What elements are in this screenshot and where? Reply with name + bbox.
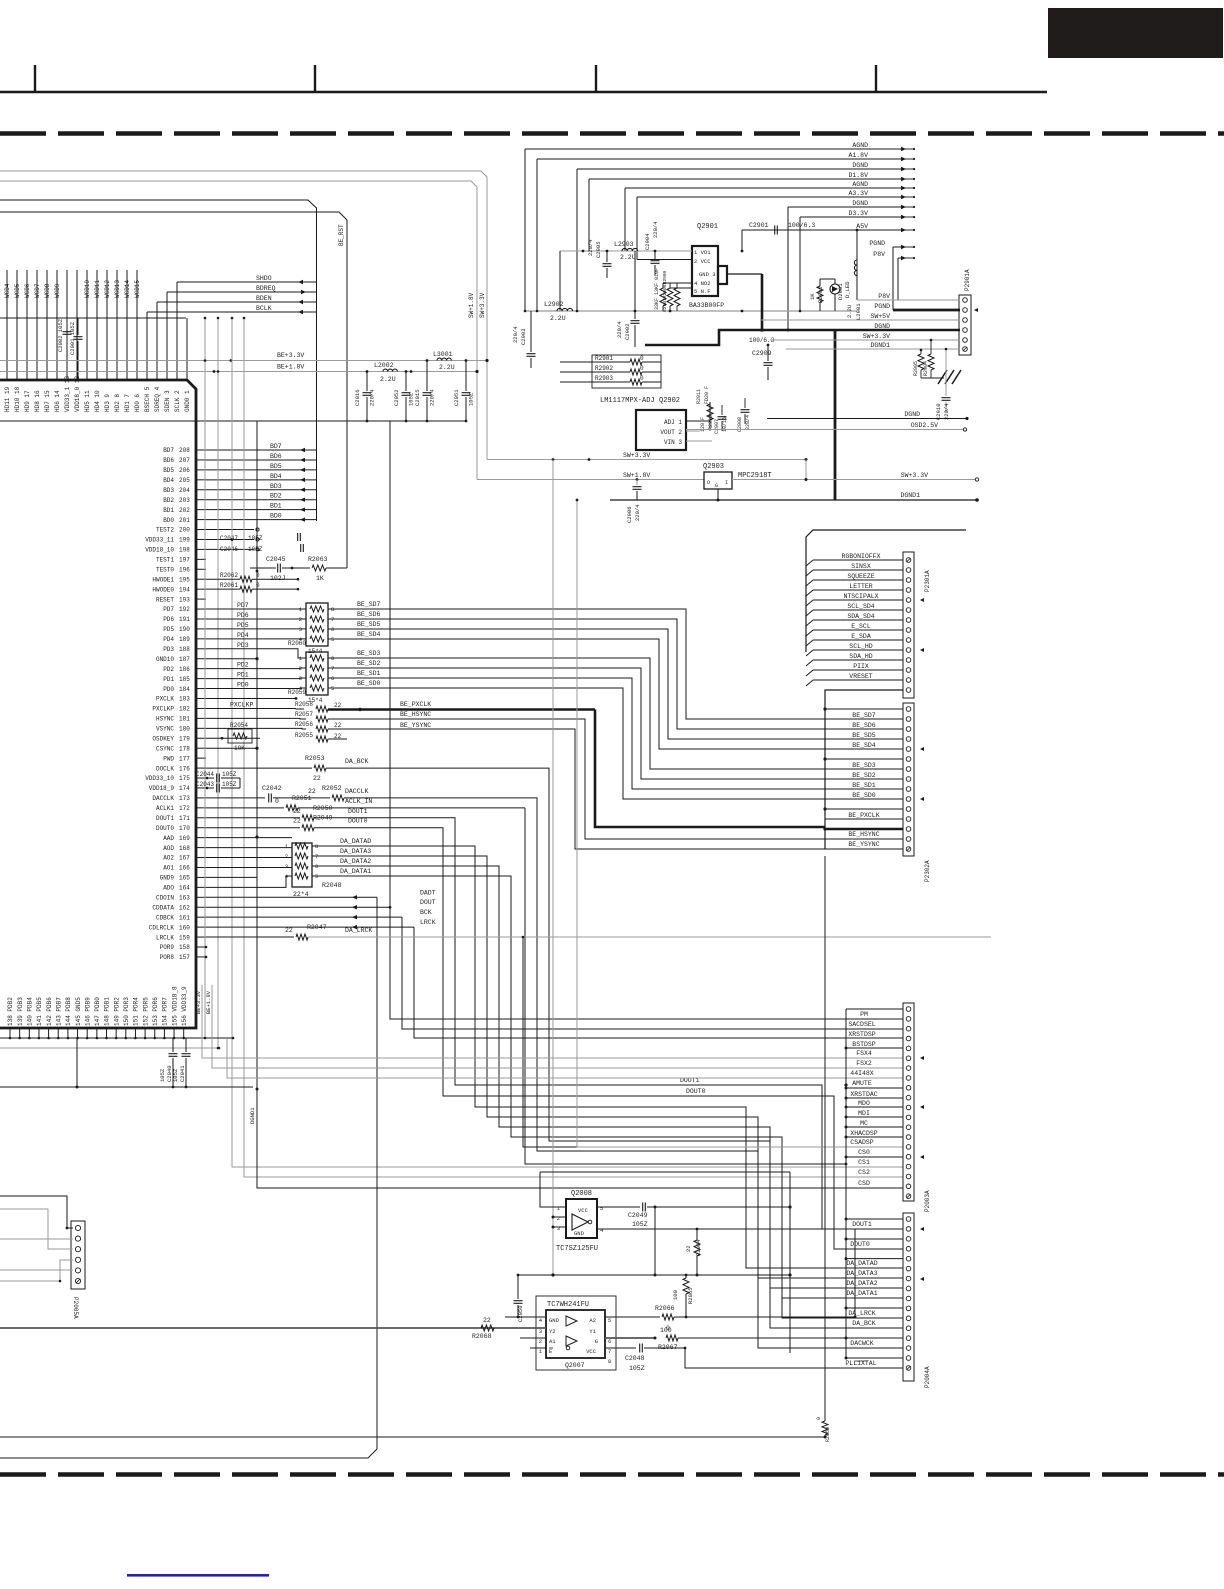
svg-text:C2042: C2042 — [262, 785, 282, 792]
svg-text:R2063: R2063 — [308, 556, 328, 563]
svg-text:BE_SD5: BE_SD5 — [357, 621, 381, 628]
svg-text:C2015: C2015 — [414, 389, 421, 406]
svg-text:GND10: GND10 — [156, 656, 174, 663]
svg-text:CDOIN: CDOIN — [156, 895, 174, 902]
svg-text:R2905: R2905 — [913, 361, 919, 376]
svg-text:0: 0 — [640, 365, 644, 372]
svg-text:C2904: C2904 — [644, 233, 651, 250]
svg-text:XHACDSP: XHACDSP — [850, 1130, 877, 1137]
svg-text:200: 200 — [179, 527, 190, 534]
svg-text:AO1: AO1 — [163, 865, 174, 872]
svg-text:170: 170 — [179, 825, 190, 832]
svg-text:DA_LRCK: DA_LRCK — [848, 1310, 875, 1317]
svg-text:BE_SD7: BE_SD7 — [852, 712, 876, 719]
svg-text:PGND: PGND — [869, 240, 885, 247]
svg-text:105Z: 105Z — [632, 1221, 648, 1228]
svg-text:TC7SZ125FU: TC7SZ125FU — [556, 1245, 598, 1253]
svg-text:144 PDB8: 144 PDB8 — [65, 997, 72, 1026]
svg-text:C2050: C2050 — [517, 1305, 524, 1322]
svg-text:BD4: BD4 — [270, 473, 282, 480]
svg-text:BDREQ: BDREQ — [256, 285, 276, 292]
svg-text:P8V: P8V — [873, 251, 885, 258]
svg-text:HWODE0: HWODE0 — [152, 586, 174, 593]
svg-text:7: 7 — [608, 1348, 611, 1355]
svg-text:192: 192 — [179, 606, 190, 613]
svg-text:C2046: C2046 — [220, 546, 238, 553]
svg-text:G: G — [595, 1338, 598, 1345]
svg-text:SACDSEL: SACDSEL — [848, 1021, 875, 1028]
svg-text:PD5: PD5 — [237, 622, 249, 629]
svg-text:3: 3 — [539, 1328, 542, 1335]
svg-text:FSX4: FSX4 — [856, 1050, 872, 1057]
svg-text:2.2U: 2.2U — [846, 305, 853, 318]
svg-text:BE_RST: BE_RST — [338, 224, 345, 246]
svg-text:BE_SD7: BE_SD7 — [357, 601, 381, 608]
svg-text:BE_SD1: BE_SD1 — [852, 782, 876, 789]
svg-text:DACWCK: DACWCK — [850, 1340, 874, 1347]
svg-text:DA_DATA3: DA_DATA3 — [846, 1270, 877, 1277]
svg-text:22: 22 — [685, 1245, 692, 1252]
svg-text:PD3: PD3 — [163, 646, 174, 653]
svg-text:ADJ 1: ADJ 1 — [664, 419, 682, 426]
svg-text:DA_DATA2: DA_DATA2 — [846, 1280, 877, 1287]
svg-text:171: 171 — [179, 815, 190, 822]
svg-text:199: 199 — [179, 537, 190, 544]
svg-text:SW+3.3V: SW+3.3V — [479, 292, 486, 318]
svg-text:158: 158 — [179, 944, 190, 951]
svg-text:0: 0 — [640, 355, 644, 362]
svg-text:PXCLK: PXCLK — [156, 696, 174, 703]
svg-text:SINSX: SINSX — [851, 563, 871, 570]
svg-text:GND0 1: GND0 1 — [184, 390, 191, 412]
svg-text:2: 2 — [299, 616, 302, 623]
svg-text:169: 169 — [179, 835, 190, 842]
svg-text:1 VO1: 1 VO1 — [694, 249, 711, 256]
svg-text:168: 168 — [179, 845, 190, 852]
svg-text:C2043: C2043 — [196, 781, 214, 788]
svg-text:105Z: 105Z — [629, 1365, 645, 1372]
svg-text:ADO: ADO — [163, 885, 174, 892]
svg-text:BDEN: BDEN — [256, 295, 272, 302]
svg-text:CDBCK: CDBCK — [156, 914, 174, 921]
svg-text:C2048: C2048 — [625, 1355, 645, 1362]
svg-text:220/4: 220/4 — [587, 239, 594, 256]
svg-text:P2301A: P2301A — [924, 570, 931, 592]
svg-text:GND9: GND9 — [160, 875, 175, 882]
svg-text:220/4: 220/4 — [512, 326, 519, 343]
svg-text:166: 166 — [179, 865, 190, 872]
svg-text:L2002: L2002 — [374, 362, 394, 369]
svg-text:DA_BCK: DA_BCK — [852, 1320, 876, 1327]
svg-text:100: 100 — [672, 1290, 679, 1300]
svg-text:VDD18_0 12: VDD18_0 12 — [74, 376, 81, 412]
svg-text:WCD9: WCD9 — [54, 283, 61, 298]
svg-text:183: 183 — [179, 696, 190, 703]
svg-text:HD8 16: HD8 16 — [34, 390, 41, 412]
svg-text:L2901: L2901 — [855, 303, 862, 320]
svg-text:AGND: AGND — [852, 142, 868, 149]
svg-text:R2058: R2058 — [295, 701, 313, 708]
svg-text:CSYNC: CSYNC — [156, 745, 174, 752]
svg-text:DA_DATA1: DA_DATA1 — [340, 868, 371, 875]
svg-text:C2045: C2045 — [266, 556, 286, 563]
svg-text:A1: A1 — [549, 1338, 556, 1345]
svg-text:PD2: PD2 — [237, 662, 249, 669]
svg-text:C2905: C2905 — [595, 241, 602, 258]
svg-text:0: 0 — [256, 572, 260, 579]
svg-text:PD4: PD4 — [237, 632, 249, 639]
svg-text:GND: GND — [574, 1230, 585, 1237]
svg-text:R2059: R2059 — [288, 689, 306, 696]
svg-text:BE+1.8V: BE+1.8V — [205, 990, 212, 1014]
svg-text:173: 173 — [179, 795, 190, 802]
svg-text:PD6: PD6 — [163, 616, 174, 623]
svg-text:HD1 7: HD1 7 — [124, 394, 131, 412]
svg-text:BE_PXCLK: BE_PXCLK — [848, 812, 879, 819]
svg-text:160: 160 — [179, 924, 190, 931]
svg-text:DGND1: DGND1 — [249, 1107, 256, 1124]
svg-text:WCD6: WCD6 — [24, 283, 31, 298]
svg-text:AMUTE: AMUTE — [852, 1080, 872, 1087]
svg-text:205: 205 — [179, 477, 190, 484]
svg-text:BE_SD0: BE_SD0 — [852, 792, 876, 799]
svg-text:151 PDR4: 151 PDR4 — [133, 997, 140, 1026]
svg-text:BD6: BD6 — [163, 457, 174, 464]
svg-text:DA_DATA2: DA_DATA2 — [340, 858, 371, 865]
svg-text:DOUT0: DOUT0 — [686, 1088, 706, 1095]
svg-text:BSTDSP: BSTDSP — [852, 1041, 876, 1048]
svg-text:DA_DATA3: DA_DATA3 — [340, 848, 371, 855]
svg-text:204: 204 — [179, 487, 190, 494]
svg-text:154 PDR7: 154 PDR7 — [162, 997, 169, 1026]
svg-text:P2003A: P2003A — [924, 1190, 931, 1212]
svg-text:PD1: PD1 — [163, 676, 174, 683]
svg-text:L2902: L2902 — [544, 301, 564, 308]
svg-text:DACCLK: DACCLK — [345, 788, 369, 795]
svg-text:VOUT 2: VOUT 2 — [660, 429, 682, 436]
svg-text:138 PDB2: 138 PDB2 — [7, 997, 14, 1026]
svg-text:MC: MC — [860, 1120, 868, 1127]
svg-text:WCD15: WCD15 — [134, 280, 141, 298]
svg-text:DOUT1: DOUT1 — [852, 1221, 872, 1228]
svg-text:44I48X: 44I48X — [850, 1070, 874, 1077]
svg-text:197: 197 — [179, 557, 190, 564]
svg-text:HD7 15: HD7 15 — [44, 390, 51, 412]
svg-text:HD9 17: HD9 17 — [24, 390, 31, 412]
svg-text:BD3: BD3 — [163, 487, 174, 494]
svg-text:R2902: R2902 — [595, 365, 613, 372]
svg-text:VDD33_10: VDD33_10 — [145, 775, 174, 782]
svg-text:190: 190 — [179, 626, 190, 633]
svg-text:TEST0: TEST0 — [156, 566, 174, 573]
svg-text:2.2U: 2.2U — [380, 376, 396, 383]
svg-text:R2065: R2065 — [687, 1287, 694, 1304]
svg-text:BD0: BD0 — [270, 513, 282, 520]
svg-text:0: 0 — [275, 798, 279, 805]
svg-text:PM: PM — [860, 1011, 868, 1018]
svg-text:BE_SD3: BE_SD3 — [852, 762, 876, 769]
svg-text:105Z: 105Z — [248, 546, 263, 553]
svg-text:HD4 10: HD4 10 — [94, 390, 101, 412]
svg-text:P2302A: P2302A — [924, 860, 931, 882]
svg-text:CS1: CS1 — [858, 1159, 870, 1166]
svg-text:Q2007: Q2007 — [565, 1362, 585, 1369]
svg-text:DOUT0: DOUT0 — [156, 825, 174, 832]
svg-text:A3.3V: A3.3V — [848, 190, 868, 197]
svg-text:2.2U: 2.2U — [620, 254, 636, 261]
svg-text:22: 22 — [334, 702, 342, 709]
svg-text:PD6: PD6 — [237, 612, 249, 619]
svg-text:SW+3.3V: SW+3.3V — [901, 472, 928, 479]
svg-text:146 PDB9: 146 PDB9 — [84, 997, 91, 1026]
svg-text:202: 202 — [179, 507, 190, 514]
svg-text:ACLK_IN: ACLK_IN — [345, 798, 372, 805]
svg-text:CS0: CS0 — [858, 1149, 870, 1156]
svg-text:D1.8V: D1.8V — [848, 172, 868, 179]
svg-text:189: 189 — [179, 636, 190, 643]
svg-text:DA_DATA1: DA_DATA1 — [846, 1290, 877, 1297]
svg-text:153 PDR6: 153 PDR6 — [152, 997, 159, 1026]
svg-text:LM1117MPX-ADJ: LM1117MPX-ADJ — [600, 397, 655, 405]
svg-text:WCD5: WCD5 — [14, 283, 21, 298]
svg-text:AAD: AAD — [163, 835, 174, 842]
svg-text:172: 172 — [179, 805, 190, 812]
svg-text:C2002 105Z: C2002 105Z — [57, 318, 64, 352]
svg-text:PIIX: PIIX — [853, 663, 869, 670]
svg-text:195: 195 — [179, 576, 190, 583]
svg-text:196: 196 — [179, 566, 190, 573]
svg-text:A1.8V: A1.8V — [848, 152, 868, 159]
svg-text:148 PDB1: 148 PDB1 — [104, 997, 111, 1026]
svg-text:O: O — [707, 480, 710, 486]
svg-text:C2902: C2902 — [624, 323, 631, 340]
svg-text:PD0: PD0 — [163, 686, 174, 693]
svg-text:TC7WH241FU: TC7WH241FU — [547, 1301, 589, 1309]
svg-text:BE_SD2: BE_SD2 — [357, 660, 381, 667]
svg-text:PXCLKP: PXCLKP — [152, 706, 174, 713]
svg-text:BA33B00FP: BA33B00FP — [689, 302, 724, 309]
svg-text:D_LED: D_LED — [844, 281, 851, 298]
svg-text:OSDKEY: OSDKEY — [152, 735, 174, 742]
svg-text:SCLK 2: SCLK 2 — [174, 390, 181, 412]
svg-text:VSYNC: VSYNC — [156, 726, 174, 733]
svg-text:AGND: AGND — [852, 181, 868, 188]
svg-text:Q2008: Q2008 — [571, 1190, 592, 1198]
svg-text:XRSTDAC: XRSTDAC — [850, 1091, 877, 1098]
svg-text:Y1: Y1 — [589, 1328, 596, 1335]
svg-text:CS2: CS2 — [858, 1169, 870, 1176]
svg-text:R2060: R2060 — [288, 640, 306, 647]
svg-text:105Z: 105Z — [222, 781, 237, 788]
svg-text:AO2: AO2 — [163, 855, 174, 862]
svg-text:BE_SD3: BE_SD3 — [357, 650, 381, 657]
svg-text:CSD: CSD — [858, 1180, 870, 1187]
svg-text:WCD11: WCD11 — [94, 280, 101, 298]
svg-text:A2: A2 — [589, 1317, 596, 1324]
svg-text:DGND1: DGND1 — [900, 492, 920, 499]
svg-text:WCD4: WCD4 — [4, 283, 11, 298]
svg-text:SDA_HD: SDA_HD — [849, 653, 873, 660]
svg-text:A5V: A5V — [856, 223, 868, 230]
svg-text:TEST1: TEST1 — [156, 557, 174, 564]
svg-text:DOCLK: DOCLK — [156, 765, 174, 772]
svg-text:LRCLK: LRCLK — [156, 934, 174, 941]
svg-text:R2903: R2903 — [595, 375, 613, 382]
svg-text:PD0: PD0 — [237, 682, 249, 689]
svg-text:DA_BCK: DA_BCK — [345, 758, 369, 765]
svg-text:BD6: BD6 — [270, 453, 282, 460]
svg-text:198: 198 — [179, 547, 190, 554]
svg-text:C2041: C2041 — [179, 1065, 186, 1082]
svg-text:3: 3 — [557, 1225, 560, 1232]
svg-text:C2052: C2052 — [393, 389, 400, 406]
svg-text:GND: GND — [549, 1317, 560, 1324]
svg-text:DOUT0: DOUT0 — [850, 1241, 870, 1248]
svg-text:VDD33_1 13: VDD33_1 13 — [64, 376, 71, 412]
svg-text:105Z: 105Z — [248, 535, 263, 542]
svg-text:203: 203 — [179, 497, 190, 504]
svg-text:102J: 102J — [270, 575, 286, 582]
svg-text:1K: 1K — [809, 293, 816, 300]
svg-text:BD2: BD2 — [270, 493, 282, 500]
svg-text:PD4: PD4 — [163, 636, 174, 643]
svg-text:R2066: R2066 — [655, 1305, 675, 1312]
svg-text:SDEN 3: SDEN 3 — [164, 390, 171, 412]
svg-text:220/4: 220/4 — [634, 504, 641, 521]
svg-text:HD3 9: HD3 9 — [104, 394, 111, 412]
svg-text:150 PDR3: 150 PDR3 — [123, 997, 130, 1026]
svg-text:182: 182 — [179, 706, 190, 713]
svg-text:DACCLK: DACCLK — [152, 795, 174, 802]
svg-text:Q2901: Q2901 — [697, 223, 718, 231]
svg-text:WCD12: WCD12 — [104, 280, 111, 298]
svg-text:1K: 1K — [316, 575, 324, 582]
svg-text:CDLRCLK: CDLRCLK — [149, 924, 175, 931]
svg-text:R2052: R2052 — [322, 785, 342, 792]
svg-text:BE_SD5: BE_SD5 — [852, 732, 876, 739]
svg-text:VDD18_9: VDD18_9 — [149, 785, 175, 792]
svg-text:AOD: AOD — [163, 845, 174, 852]
svg-text:BD7: BD7 — [270, 443, 282, 450]
svg-text:BE_PXCLK: BE_PXCLK — [400, 701, 431, 708]
svg-text:PD7: PD7 — [163, 606, 174, 613]
svg-text:SW+1.8V: SW+1.8V — [623, 472, 650, 479]
svg-text:C2047: C2047 — [220, 535, 238, 542]
svg-text:163: 163 — [179, 895, 190, 902]
svg-text:3: 3 — [285, 863, 288, 870]
svg-text:MDO: MDO — [858, 1100, 870, 1107]
svg-text:141 PDB5: 141 PDB5 — [36, 997, 43, 1026]
svg-text:Q2902: Q2902 — [659, 397, 680, 405]
svg-text:DA_LRCK: DA_LRCK — [345, 927, 372, 934]
svg-text:BD3: BD3 — [270, 483, 282, 490]
svg-text:P2004A: P2004A — [924, 1366, 931, 1388]
svg-text:178: 178 — [179, 745, 190, 752]
svg-text:191: 191 — [179, 616, 190, 623]
svg-text:180: 180 — [179, 726, 190, 733]
svg-text:165: 165 — [179, 875, 190, 882]
svg-text:100: 100 — [660, 1327, 672, 1334]
svg-text:174: 174 — [179, 785, 190, 792]
svg-text:BE_SD6: BE_SD6 — [852, 722, 876, 729]
svg-text:HSYNC: HSYNC — [156, 716, 174, 723]
svg-text:PD1: PD1 — [237, 672, 249, 679]
svg-text:PD2: PD2 — [163, 666, 174, 673]
svg-text:R2906: R2906 — [817, 286, 824, 303]
svg-text:SQUEEZE: SQUEEZE — [847, 573, 874, 580]
svg-text:R2049: R2049 — [313, 815, 333, 822]
svg-text:147 PDB0: 147 PDB0 — [94, 997, 101, 1026]
svg-text:162: 162 — [179, 904, 190, 911]
svg-text:145 GND5: 145 GND5 — [75, 997, 82, 1026]
svg-text:159: 159 — [179, 934, 190, 941]
svg-text:LETTER: LETTER — [849, 583, 873, 590]
svg-text:105Z: 105Z — [222, 771, 237, 778]
svg-text:BE_SD6: BE_SD6 — [357, 611, 381, 618]
svg-text:181: 181 — [179, 716, 190, 723]
svg-text:105Z: 105Z — [468, 392, 475, 406]
svg-text:L3001: L3001 — [433, 351, 453, 358]
svg-text:PGND: PGND — [874, 303, 890, 310]
svg-text:220/4: 220/4 — [369, 389, 376, 406]
svg-text:P8V: P8V — [878, 293, 890, 300]
svg-text:142 PDB6: 142 PDB6 — [46, 997, 53, 1026]
svg-text:100/6.3: 100/6.3 — [788, 222, 815, 229]
svg-text:DOUT1: DOUT1 — [156, 815, 174, 822]
svg-text:22: 22 — [483, 1317, 491, 1324]
svg-text:C2001 105Z: C2001 105Z — [69, 321, 76, 355]
svg-text:8: 8 — [608, 1358, 611, 1365]
svg-text:R2047: R2047 — [307, 924, 327, 931]
svg-text:D2901: D2901 — [837, 283, 844, 300]
svg-text:FSX2: FSX2 — [856, 1060, 872, 1067]
svg-text:PXCLKP: PXCLKP — [230, 701, 254, 708]
svg-text:WCD7: WCD7 — [34, 283, 41, 298]
svg-text:CDDATA: CDDATA — [152, 904, 174, 911]
svg-text:OSD2.5V: OSD2.5V — [911, 422, 938, 429]
svg-text:SCL_SD4: SCL_SD4 — [847, 603, 874, 610]
svg-text:201: 201 — [179, 517, 190, 524]
svg-text:I: I — [725, 480, 728, 486]
svg-text:BD1: BD1 — [163, 507, 174, 514]
svg-text:140 PDB4: 140 PDB4 — [27, 997, 34, 1026]
svg-text:SHDO: SHDO — [256, 275, 272, 282]
svg-text:WCD10: WCD10 — [84, 280, 91, 298]
svg-text:ACLK1: ACLK1 — [156, 805, 174, 812]
svg-text:187: 187 — [179, 656, 190, 663]
svg-text:E_SDA: E_SDA — [851, 633, 871, 640]
svg-text:VDD33_11: VDD33_11 — [145, 537, 174, 544]
svg-text:SDA_SD4: SDA_SD4 — [847, 613, 874, 620]
svg-text:175: 175 — [179, 775, 190, 782]
svg-text:R2907R2908R2909: R2907R2908R2909 — [662, 270, 668, 312]
svg-text:149 PDR2: 149 PDR2 — [113, 997, 120, 1026]
svg-text:G: G — [715, 483, 718, 489]
svg-text:220/4: 220/4 — [943, 403, 950, 420]
svg-text:167: 167 — [179, 855, 190, 862]
svg-text:2.2U: 2.2U — [550, 315, 566, 322]
svg-text:DOUT0: DOUT0 — [348, 818, 368, 825]
svg-text:SW+1.8V: SW+1.8V — [468, 292, 475, 318]
svg-text:FD20 F: FD20 F — [704, 386, 710, 404]
svg-text:P2005A: P2005A — [72, 1297, 79, 1319]
svg-text:BCLK: BCLK — [256, 305, 272, 312]
svg-text:GND 3: GND 3 — [699, 271, 716, 278]
svg-text:PD7: PD7 — [237, 602, 249, 609]
svg-text:5: 5 — [600, 1205, 603, 1212]
svg-text:22: 22 — [293, 818, 301, 825]
svg-text:DGND: DGND — [852, 200, 868, 207]
